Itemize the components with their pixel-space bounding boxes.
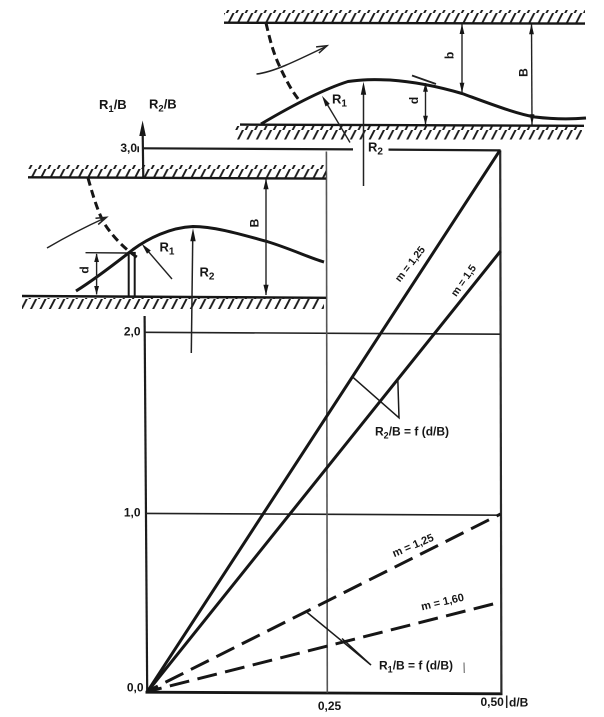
svg-text:3,0: 3,0 [120,141,137,155]
dimension d line [425,83,427,125]
svg-text:0,50: 0,50 [481,695,505,709]
svg-text:d: d [78,266,92,273]
svg-text:1,0: 1,0 [124,506,141,520]
dashed jet trajectory [266,23,299,100]
gridline y=2.0 [145,332,501,334]
curved flow arrowhead [96,217,107,224]
d dimension tick line [86,252,128,254]
bottom wall line [22,296,326,298]
dashed line m=1,25 (R1/B) [148,514,501,691]
solid line m=1,5 [147,251,500,692]
dimension B line [531,24,534,125]
gridline y=1.0 [146,513,501,515]
solid line m=1,25 [147,150,500,691]
curved flow arrowhead [316,46,327,53]
tick after R1/B label [463,663,465,674]
svg-text:B: B [517,68,531,77]
curved flow arrow [257,46,328,74]
R1 arrow [324,99,350,143]
dimension b line [461,24,463,93]
tick at 3,0 [137,146,139,152]
R2 arrow [363,86,365,186]
tick bar before d/B [506,696,508,709]
d dimension line [96,254,98,295]
bottom wall hatching [22,298,324,309]
svg-text:2,0: 2,0 [124,325,141,339]
oblique tick at d top [412,76,436,85]
right boundary x=0.50 [500,150,501,693]
svg-text:b: b [443,52,457,59]
top wall hatching [28,165,326,178]
dimension B line [265,179,267,295]
svg-text:0,25: 0,25 [318,699,342,713]
y-axis lower segment [145,316,148,693]
R2 arrow [191,233,193,353]
y-axis upper segment [142,134,145,179]
water-surface hump curve [76,227,324,292]
y-axis arrowhead [139,121,146,137]
water-surface hump curve [261,80,586,124]
gridline y=3.0 left segment [144,148,354,149]
leader fork for R1/B label [306,612,371,666]
bottom wall line [240,125,584,126]
svg-text:0,0: 0,0 [127,681,144,695]
sill left line [128,253,130,296]
dashed jet trajectory [88,178,138,258]
top wall line [28,177,326,178]
leader fork for R2/B label [353,377,399,418]
x-axis [146,692,503,694]
gridline x=0.25 [325,152,328,693]
svg-text:d: d [407,97,421,104]
top wall hatching [224,10,585,23]
gridline y=3.0 right segment [389,149,501,152]
dashed line m=1,60 (R1/B) [148,602,501,692]
sill right line [134,253,136,296]
svg-text:d/B: d/B [509,696,529,710]
R1 arrow [144,247,172,280]
curved flow arrow [47,218,106,249]
bottom wall hatching [235,126,582,140]
svg-text:B: B [248,218,262,227]
sill top cap [128,252,136,254]
top wall line [224,22,585,25]
